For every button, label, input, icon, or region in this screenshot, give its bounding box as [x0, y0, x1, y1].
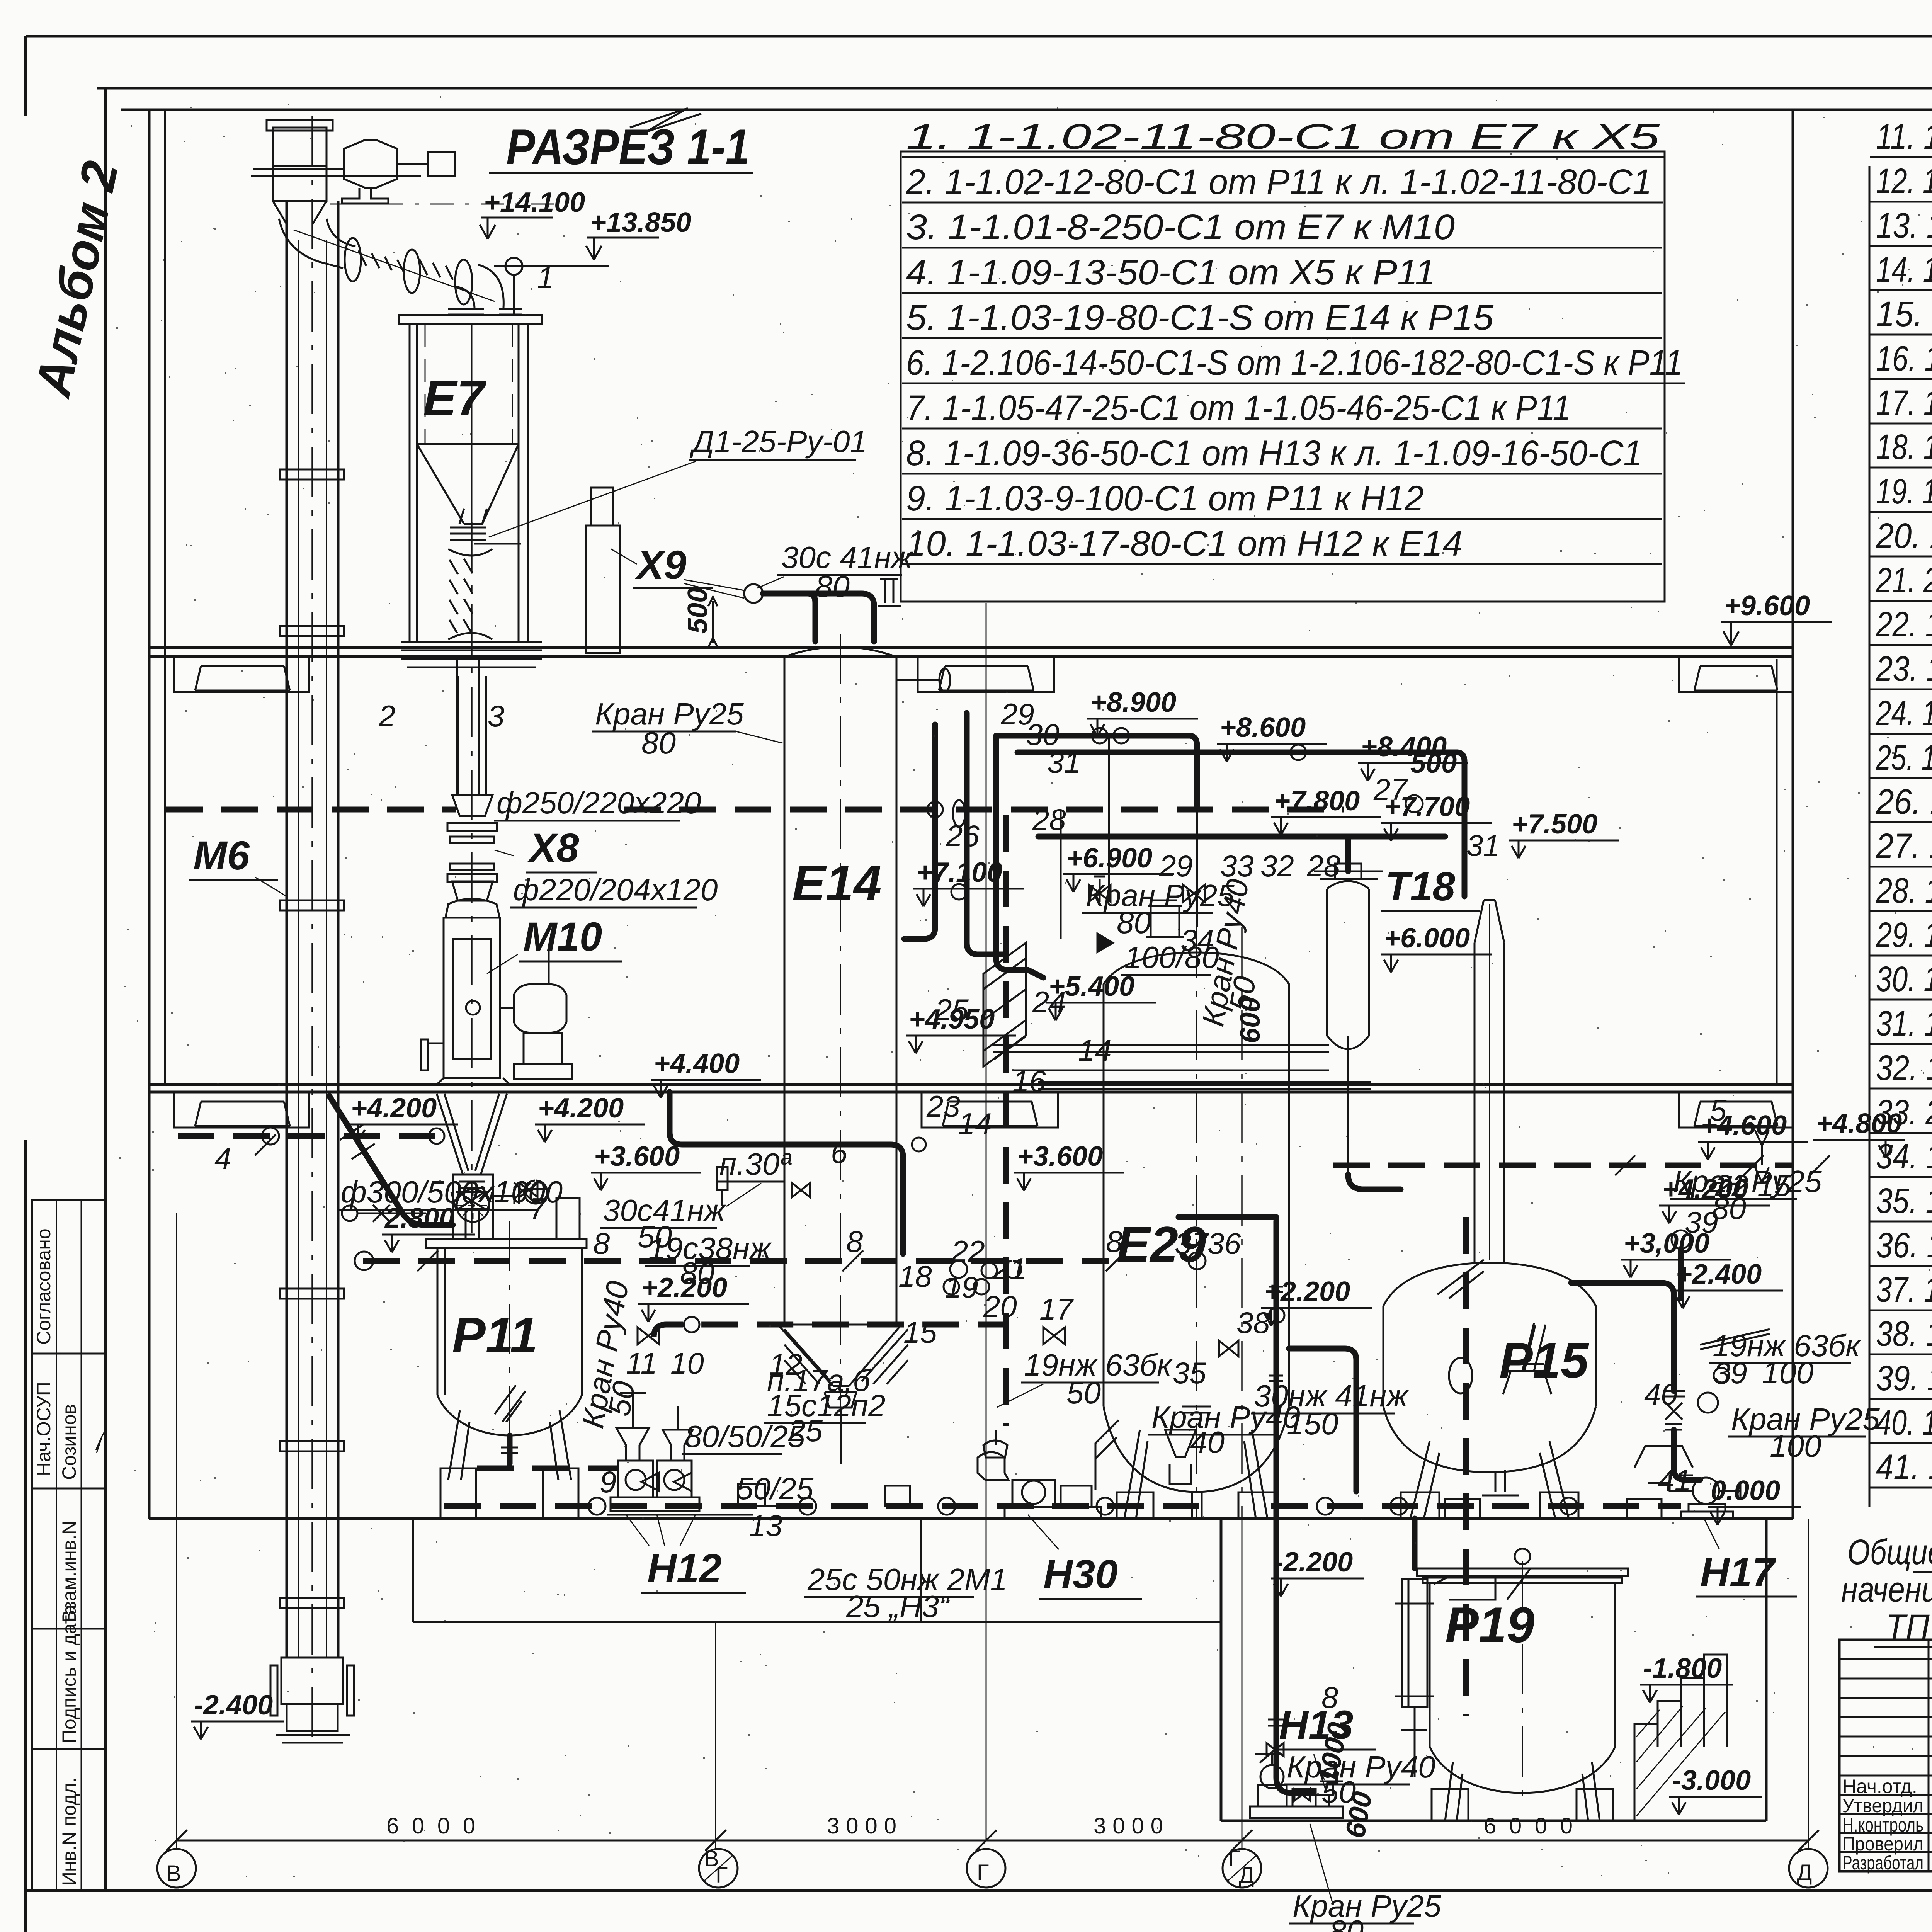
svg-text:Общие примечания и условные об: Общие примечания и условные обоз-	[1847, 1532, 1932, 1572]
svg-text:37. 1-1.09-25-50-С1 от Т18: 37. 1-1.09-25-50-С1 от Т18 к л. 1-1.09-2…	[1876, 1270, 1932, 1310]
svg-text:41. 1-1.10-20-150-К-S от Р15: 41. 1-1.10-20-150-К-S от Р15 к Н17	[1876, 1447, 1932, 1487]
svg-text:50: 50	[602, 1379, 641, 1418]
svg-text:6: 6	[831, 1136, 848, 1170]
svg-text:80/50/25: 80/50/25	[685, 1419, 805, 1454]
svg-text:30. 1-1.11-55-25-К от л. 1-1: 30. 1-1.11-55-25-К от л. 1-1.11-52-50-К …	[1876, 959, 1932, 999]
svg-text:20: 20	[983, 1289, 1017, 1323]
svg-text:9. 1-1.03-9-100-С1 от Р11 к Н: 9. 1-1.03-9-100-С1 от Р11 к Н12	[906, 479, 1424, 518]
svg-text:-3.000: -3.000	[1672, 1765, 1751, 1796]
svg-text:-2.200: -2.200	[1274, 1547, 1353, 1578]
svg-text:28. 1-2.106-183-50-С1-S магис: 28. 1-2.106-183-50-С1-S магистраль пара	[1876, 871, 1932, 910]
svg-text:9: 9	[600, 1465, 616, 1499]
svg-text:ф220/204х120: ф220/204х120	[513, 872, 718, 907]
svg-text:8. 1-1.09-36-50-С1 от Н13 к л: 8. 1-1.09-36-50-С1 от Н13 к л. 1-1.09-16…	[906, 434, 1642, 473]
svg-text:1. 1-1.02-11-80-С1 от Е7 к: 1. 1-1.02-11-80-С1 от Е7 к Х5	[906, 117, 1660, 156]
svg-text:13: 13	[749, 1509, 782, 1543]
svg-text:+2.200: +2.200	[1264, 1276, 1350, 1307]
svg-text:39: 39	[1714, 1356, 1747, 1390]
svg-text:Созинов: Созинов	[58, 1404, 80, 1480]
svg-text:10. 1-1.03-17-80-С1 от Н12 к: 10. 1-1.03-17-80-С1 от Н12 к Е14	[906, 524, 1463, 563]
svg-text:3. 1-1.01-8-250-С1 от Е7 к М: 3. 1-1.01-8-250-С1 от Е7 к М10	[906, 207, 1455, 247]
svg-text:6. 1-2.106-14-50-С1-S от 1-2.: 6. 1-2.106-14-50-С1-S от 1-2.106-182-80-…	[906, 343, 1683, 383]
svg-text:начения см. лист общих данны: начения см. лист общих данных	[1841, 1570, 1932, 1609]
svg-text:17. 1-1.11-53-40-К от л. 1-1.: 17. 1-1.11-53-40-К от л. 1-1.11-52-50-К …	[1876, 383, 1932, 423]
svg-text:11. 1-1.03-18-25-С1 от л. 1-1: 11. 1-1.03-18-25-С1 от л. 1-1.03-17-80-С…	[1876, 117, 1932, 156]
svg-text:+7.700: +7.700	[1384, 791, 1470, 822]
svg-text:33: 33	[1220, 849, 1254, 883]
svg-text:15: 15	[903, 1315, 937, 1349]
svg-text:39. 1-1.10-21-100-К-S от Н17: 39. 1-1.10-21-100-К-S от Н17 к Е20/1,4	[1876, 1359, 1932, 1398]
svg-text:15с12п2: 15с12п2	[767, 1388, 885, 1423]
svg-text:Г: Г	[1228, 1846, 1240, 1871]
svg-text:Е14: Е14	[792, 855, 881, 911]
svg-text:Н.контроль: Н.контроль	[1842, 1814, 1923, 1836]
svg-text:+4.600: +4.600	[1701, 1110, 1787, 1141]
svg-text:4. 1-1.09-13-50-С1 от Х5 к Р: 4. 1-1.09-13-50-С1 от Х5 к Р11	[906, 253, 1435, 292]
svg-text:+4.200: +4.200	[538, 1093, 624, 1124]
svg-text:21. 2-1.15-98-50-К-S от Н62: 21. 2-1.15-98-50-К-S от Н62 в л. 1-1.11-…	[1876, 561, 1932, 600]
svg-text:4: 4	[214, 1141, 231, 1175]
svg-text:0.000: 0.000	[1711, 1475, 1780, 1506]
svg-text:8: 8	[593, 1226, 610, 1260]
svg-text:600: 600	[1235, 997, 1266, 1043]
svg-text:150: 150	[1287, 1406, 1338, 1441]
svg-text:35. 1-В.4-28-50-С к Т18 от м: 35. 1-В.4-28-50-С к Т18 от магистрали ВО…	[1876, 1181, 1932, 1221]
svg-text:Утвердил: Утвердил	[1842, 1795, 1923, 1816]
svg-text:22. 1-3.103-71-50-С-S конденса: 22. 1-3.103-71-50-С-S конденсат пара(маг…	[1876, 605, 1932, 644]
svg-text:50/25: 50/25	[736, 1471, 814, 1506]
svg-text:80: 80	[1117, 905, 1151, 940]
svg-text:+8.900: +8.900	[1090, 687, 1176, 718]
svg-text:+3.600: +3.600	[594, 1141, 680, 1172]
svg-text:М10: М10	[523, 914, 602, 959]
svg-text:8: 8	[1321, 1680, 1338, 1714]
svg-text:-1.800: -1.800	[1643, 1653, 1722, 1684]
svg-text:2: 2	[378, 699, 395, 733]
svg-text:+14.100: +14.100	[484, 187, 585, 218]
svg-text:16. 1-2.106-6-50-С1-S от л. 1: 16. 1-2.106-6-50-С1-S от л. 1-2.106-182-…	[1876, 339, 1932, 378]
svg-text:п.30ª: п.30ª	[719, 1147, 792, 1181]
svg-text:38. 1-1.09-26-50-С1 от л. 1-1.: 38. 1-1.09-26-50-С1 от л. 1-1.09-25-50-С…	[1876, 1314, 1932, 1354]
svg-text:100: 100	[1770, 1429, 1821, 1463]
svg-text:+6.000: +6.000	[1384, 923, 1470, 954]
svg-text:+7.100: +7.100	[917, 857, 1002, 888]
svg-text:25. 1-1.11-55-25-К от л. 1-1.: 25. 1-1.11-55-25-К от л. 1-1.11-52-50-К …	[1876, 738, 1932, 777]
svg-text:26: 26	[946, 819, 980, 853]
svg-text:36. 1-1.06-4-80-С1-S от Е74 к: 36. 1-1.06-4-80-С1-S от Е74 к Р15	[1876, 1226, 1932, 1265]
svg-text:41: 41	[1658, 1463, 1691, 1497]
svg-text:Проверил: Проверил	[1842, 1833, 1923, 1855]
svg-text:Х9: Х9	[635, 543, 686, 588]
svg-text:+7.800: +7.800	[1274, 786, 1360, 816]
svg-text:+7.500: +7.500	[1512, 809, 1597, 840]
svg-text:14: 14	[1078, 1033, 1112, 1067]
svg-text:32. 1-2.106-48-50-С1-S от л.: 32. 1-2.106-48-50-С1-S от л. 1-2.106-182…	[1876, 1048, 1932, 1088]
svg-text:7. 1-1.05-47-25-С1 от 1-1.05-: 7. 1-1.05-47-25-С1 от 1-1.05-46-25-С1 к …	[906, 388, 1571, 428]
svg-text:12. 1-2.106-30-50-С1-S от л.: 12. 1-2.106-30-50-С1-S от л. 1-2.106-182…	[1876, 162, 1932, 201]
svg-text:14. 1-2.106-30-50-С1-S от л.: 14. 1-2.106-30-50-С1-S от л. 1-2.106-182…	[1876, 250, 1932, 289]
svg-text:1: 1	[537, 260, 554, 294]
svg-text:+13.850: +13.850	[590, 207, 691, 238]
svg-text:22: 22	[951, 1234, 985, 1268]
svg-text:29. 1-1.11-54-50-К от л. 1-1.: 29. 1-1.11-54-50-К от л. 1-1.11-52-50-К …	[1876, 915, 1932, 955]
svg-text:31: 31	[1466, 828, 1500, 862]
svg-text:Р11: Р11	[452, 1307, 538, 1363]
svg-text:+4.200: +4.200	[1662, 1174, 1748, 1205]
svg-text:19: 19	[945, 1270, 978, 1304]
svg-text:Т18: Т18	[1385, 864, 1456, 909]
svg-text:5. 1-1.03-19-80-С1-S от Е14 к: 5. 1-1.03-19-80-С1-S от Е14 к Р15	[906, 298, 1494, 337]
svg-text:Д: Д	[1239, 1862, 1254, 1888]
svg-text:2. 1-1.02-12-80-С1 от Р11 к: 2. 1-1.02-12-80-С1 от Р11 к л. 1-1.02-11…	[906, 162, 1652, 202]
svg-text:17: 17	[1039, 1292, 1074, 1326]
svg-text:Н12: Н12	[647, 1546, 722, 1591]
svg-text:23: 23	[926, 1089, 960, 1123]
svg-text:21: 21	[993, 1252, 1027, 1286]
svg-text:+4.800: +4.800	[1816, 1108, 1902, 1139]
svg-text:2.800: 2.800	[384, 1203, 454, 1234]
svg-text:8: 8	[846, 1225, 863, 1259]
svg-text:13. 1-1.27-10-80-С1 дренажный: 13. 1-1.27-10-80-С1 дренажный коллектор …	[1876, 206, 1932, 245]
svg-text:28: 28	[1032, 803, 1066, 837]
svg-text:28: 28	[1306, 849, 1340, 883]
svg-text:Е7: Е7	[423, 370, 487, 426]
svg-text:Кран Ру25: Кран Ру25	[1293, 1889, 1441, 1923]
svg-text:34: 34	[1180, 923, 1214, 957]
svg-text:15. 1-1.03-19-80-С1-S от Е14: 15. 1-1.03-19-80-С1-S от Е14 к Р15	[1876, 294, 1932, 334]
svg-text:РАЗРЕЗ 1-1: РАЗРЕЗ 1-1	[506, 119, 750, 175]
svg-text:+8.600: +8.600	[1220, 712, 1306, 743]
svg-text:Х8: Х8	[527, 825, 579, 871]
svg-text:Р15: Р15	[1499, 1332, 1589, 1388]
svg-text:20. 1-1.11-84-80-К-S от Н28/1: 20. 1-1.11-84-80-К-S от Н28/1,2 к Е29	[1876, 516, 1932, 556]
svg-text:7: 7	[529, 1192, 547, 1226]
svg-text:Кран Ру25: Кран Ру25	[1086, 878, 1235, 913]
svg-text:18. 1-1.11-55-25-К от л. 1-1.: 18. 1-1.11-55-25-К от л. 1-1.11-52-50-К …	[1876, 427, 1932, 467]
svg-text:Кран Ру40: Кран Ру40	[1287, 1750, 1435, 1784]
svg-text:-2.400: -2.400	[194, 1690, 273, 1721]
svg-text:40: 40	[1644, 1377, 1678, 1411]
svg-text:25: 25	[788, 1413, 823, 1448]
svg-text:500: 500	[1410, 748, 1457, 779]
svg-text:25 „Н3“: 25 „Н3“	[846, 1589, 951, 1624]
svg-text:М6: М6	[193, 833, 250, 878]
svg-text:23. 1-1.07-7-80-С1-S от Е74: 23. 1-1.07-7-80-С1-S от Е74 к л. 1-1.07-…	[1876, 649, 1932, 689]
svg-text:50: 50	[1066, 1376, 1101, 1410]
svg-text:+3.600: +3.600	[1017, 1141, 1103, 1172]
svg-text:24. 1-1.13-63-25-К от л. 1-1.: 24. 1-1.13-63-25-К от л. 1-1.13-62-50-К …	[1876, 694, 1932, 733]
svg-text:Инв.N подл.: Инв.N подл.	[58, 1777, 80, 1886]
svg-text:Г: Г	[977, 1860, 989, 1885]
svg-text:500: 500	[682, 587, 713, 634]
svg-text:14: 14	[958, 1107, 992, 1141]
svg-text:12: 12	[769, 1347, 803, 1381]
svg-text:+4.950: +4.950	[909, 1004, 995, 1035]
svg-text:Н17: Н17	[1700, 1550, 1776, 1595]
svg-text:8: 8	[1106, 1225, 1122, 1259]
svg-text:40. 1-1.10-22-25-К-S от л. 1-: 40. 1-1.10-22-25-К-S от л. 1-1.10-21-100…	[1876, 1403, 1932, 1442]
svg-text:В: В	[166, 1861, 181, 1886]
svg-text:Д: Д	[1797, 1860, 1812, 1885]
svg-text:+4.200: +4.200	[351, 1093, 437, 1124]
svg-text:36: 36	[1207, 1226, 1241, 1260]
svg-text:29: 29	[1159, 849, 1193, 883]
svg-text:+3,000: +3,000	[1624, 1228, 1709, 1259]
svg-text:Разработал: Разработал	[1842, 1852, 1923, 1874]
svg-text:Г: Г	[716, 1862, 728, 1888]
svg-text:+9.600: +9.600	[1724, 590, 1810, 621]
svg-text:31. 1-1.05-46-25-С1 от л. 1-1: 31. 1-1.05-46-25-С1 от л. 1-1.05-45-С1 к…	[1876, 1004, 1932, 1043]
svg-text:40: 40	[1190, 1425, 1225, 1459]
svg-text:27. 1-1.07-23-80-С1-S от Е14: 27. 1-1.07-23-80-С1-S от Е14 к Т18	[1876, 827, 1932, 866]
svg-text:37: 37	[1175, 1226, 1209, 1260]
svg-text:26. 1-1.03-17-80-С1 от Н12: 26. 1-1.03-17-80-С1 от Н12 к Е14	[1876, 782, 1932, 821]
svg-text:ф250/220х220: ф250/220х220	[497, 786, 701, 820]
svg-text:38: 38	[1236, 1306, 1270, 1340]
svg-text:Н30: Н30	[1043, 1552, 1118, 1597]
svg-text:+5.400: +5.400	[1049, 971, 1134, 1002]
svg-text:+4.400: +4.400	[654, 1048, 740, 1079]
svg-text:31: 31	[1047, 745, 1081, 779]
svg-text:Подпись и дата: Подпись и дата	[58, 1604, 80, 1743]
svg-text:+6.900: +6.900	[1066, 843, 1152, 874]
svg-text:Нач.ОСУП: Нач.ОСУП	[33, 1382, 54, 1476]
svg-text:32: 32	[1260, 849, 1294, 883]
svg-text:10: 10	[670, 1346, 704, 1380]
svg-text:Д1-25-Ру-01: Д1-25-Ру-01	[689, 424, 867, 459]
svg-text:+2.200: +2.200	[641, 1272, 727, 1303]
svg-text:100: 100	[1762, 1355, 1813, 1390]
svg-text:Нач.отд.: Нач.отд.	[1842, 1776, 1917, 1797]
svg-text:15: 15	[1757, 1168, 1791, 1202]
svg-text:+2.400: +2.400	[1676, 1259, 1762, 1290]
svg-text:11: 11	[626, 1346, 657, 1380]
svg-text:18: 18	[898, 1259, 932, 1293]
svg-text:Р19: Р19	[1445, 1597, 1534, 1653]
svg-text:16: 16	[1012, 1064, 1046, 1098]
svg-text:35: 35	[1173, 1356, 1206, 1390]
svg-text:Согласовано: Согласовано	[33, 1228, 54, 1345]
svg-text:19. 1-1.30-27-50-С воздушка: 19. 1-1.30-27-50-С воздушка см. фонаря	[1876, 472, 1932, 511]
